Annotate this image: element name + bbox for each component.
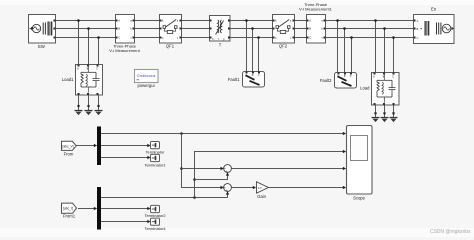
svg-text:EW: EW <box>38 44 45 49</box>
load block Load1 <box>62 65 103 96</box>
svg-text:C: C <box>417 36 419 40</box>
svg-text:powergui: powergui <box>138 83 155 88</box>
wire drop phase B to Load <box>383 27 386 72</box>
three-phase V-I measurement1 block <box>299 2 332 43</box>
gain block Gain <box>257 182 269 199</box>
sum block Sum2 <box>224 184 232 193</box>
svg-text:From1: From1 <box>63 214 76 219</box>
wire phase B: V-I Measurement to QF1 <box>135 28 160 30</box>
wire From1 to Demux2 <box>78 207 97 210</box>
svg-text:B: B <box>118 27 120 31</box>
svg-text:Terminator: Terminator <box>146 150 166 155</box>
wire Sum1 to Scope in3 <box>231 167 346 170</box>
wire Demux2 out1 (Ia) to Sum2 bottom <box>101 191 229 197</box>
demux Demux2 <box>97 187 101 230</box>
svg-text:B: B <box>309 27 311 31</box>
svg-text:V-I Measurement: V-I Measurement <box>109 48 140 53</box>
source Eo <box>414 7 455 44</box>
ground under Load1 phase A <box>75 95 83 115</box>
ground under Load phase A <box>372 105 380 122</box>
wire phase C: QF1 to transformer T <box>182 37 210 39</box>
svg-text:C: C <box>118 36 120 40</box>
terminator Terminator2 <box>144 205 166 218</box>
svg-text:Terminator4: Terminator4 <box>144 226 166 231</box>
terminator Terminator4 <box>144 218 166 231</box>
terminator Terminator1 <box>144 154 166 167</box>
junction Ia tap <box>193 196 196 199</box>
svg-text:V-I Measurement1: V-I Measurement1 <box>299 7 332 12</box>
junction Va to Sum1 <box>180 167 183 170</box>
wire Va branch to Sum1 left <box>182 167 224 170</box>
svg-text:Terminator2: Terminator2 <box>144 213 166 218</box>
watermark CSDN <box>430 229 471 235</box>
svg-text:B: B <box>417 27 419 31</box>
svg-text:Load1: Load1 <box>62 77 74 82</box>
wire phase B: QF1 to transformer T <box>182 28 210 30</box>
sum block Sum1 <box>224 165 232 174</box>
wire phase B: QF2 to V-I Measurement1 <box>295 28 307 30</box>
svg-text:T: T <box>219 43 222 48</box>
svg-text:A: A <box>417 19 419 23</box>
breaker QF1 <box>160 15 182 49</box>
svg-text:A: A <box>275 19 277 23</box>
wire drop phase A to Load1 <box>77 19 80 64</box>
svg-text:C: C <box>392 74 394 78</box>
svg-text:QF1: QF1 <box>166 44 175 49</box>
svg-text:CSDN @mgksnbx: CSDN @mgksnbx <box>430 229 471 235</box>
wire drop phase C to Fault2 <box>350 36 353 72</box>
wire From to Demux1 <box>76 144 97 147</box>
wire phase A: transformer T to QF2 <box>231 20 273 22</box>
wire drop phase C to Fault1 <box>257 36 260 71</box>
wire Gain to Scope in4 <box>269 186 347 189</box>
svg-text:Terminator1: Terminator1 <box>144 162 166 167</box>
ground under Load1 phase B <box>85 95 93 115</box>
svg-text:1.5: 1.5 <box>258 186 262 190</box>
svg-text:A: A <box>118 19 120 23</box>
demux Demux1 <box>97 127 101 166</box>
svg-text:C: C <box>162 36 164 40</box>
from tag [abc_I] <box>62 203 77 219</box>
terminator Terminator <box>146 142 166 155</box>
ground under Load phase C <box>390 105 398 122</box>
wire drop phase B to Fault1 <box>251 27 254 71</box>
svg-text:From: From <box>64 151 74 156</box>
fault block Fault2 <box>320 73 357 89</box>
svg-text:Fault2: Fault2 <box>320 78 332 83</box>
wire drop phase A to Load <box>374 19 377 72</box>
svg-text:Continuous: Continuous <box>137 74 156 78</box>
wire drop phase B to Load1 <box>87 27 90 64</box>
wire phase B: EW to V-I Measurement <box>56 28 116 30</box>
wire Ia vertical tap to Scope in2 <box>195 150 347 198</box>
wire drop phase C to Load <box>392 36 395 72</box>
load block Load <box>360 73 399 106</box>
wire Va vertical tap to Sum2 left <box>182 134 224 190</box>
svg-text:Eo: Eo <box>431 7 437 12</box>
svg-text:C: C <box>258 74 260 77</box>
wire phase B: V-I Measurement1 to Eo <box>326 28 414 30</box>
wire phase A: QF1 to transformer T <box>182 20 210 22</box>
from tag [abc_V] <box>62 141 77 156</box>
svg-text:A: A <box>77 66 79 70</box>
ground under Load phase B <box>381 105 389 122</box>
wire phase C: EW to V-I Measurement <box>56 37 116 39</box>
breaker QF2 <box>273 15 295 49</box>
junction Ia to Sum1 <box>193 178 196 181</box>
wire phase C: V-I Measurement1 to Eo <box>326 37 414 39</box>
svg-text:C: C <box>212 38 214 41</box>
wire Ia branch to Sum1 bottom <box>195 172 230 179</box>
wire drop phase A to Fault2 <box>336 19 339 72</box>
svg-text:Load: Load <box>360 86 370 91</box>
wire drop phase B to Fault2 <box>343 27 346 72</box>
wire Demux2 out3 to Terminator4 <box>101 220 151 223</box>
svg-text:A: A <box>162 19 164 23</box>
powergui block <box>135 70 159 89</box>
svg-text:C: C <box>275 36 277 40</box>
svg-text:QF2: QF2 <box>279 44 288 49</box>
transformer T <box>210 16 231 48</box>
wire drop phase A to Fault1 <box>245 19 248 71</box>
fault block Fault1 <box>228 72 265 88</box>
three-phase V-I measurement block <box>109 15 140 54</box>
ground under Load1 phase C <box>95 95 103 115</box>
svg-text:Fault1: Fault1 <box>228 77 240 82</box>
wire phase A: V-I Measurement1 to Eo <box>326 20 414 22</box>
svg-text:[abc_I]: [abc_I] <box>63 207 73 211</box>
scope block <box>347 126 373 201</box>
wire phase A: QF2 to V-I Measurement1 <box>295 20 307 22</box>
wire phase C: V-I Measurement to QF1 <box>135 37 160 39</box>
wire Demux1 out3 to Terminator1 <box>101 156 151 159</box>
svg-text:A: A <box>373 74 375 78</box>
svg-text:[abc_V]: [abc_V] <box>62 144 73 148</box>
svg-text:+: + <box>226 189 228 193</box>
wire phase B: transformer T to QF2 <box>231 28 273 30</box>
svg-text:A: A <box>309 19 311 23</box>
wire phase C: QF2 to V-I Measurement1 <box>295 37 307 39</box>
svg-text:C: C <box>350 75 352 78</box>
svg-text:C: C <box>309 36 311 40</box>
wire phase A: V-I Measurement to QF1 <box>135 20 160 22</box>
wire phase A: EW to V-I Measurement <box>56 20 116 22</box>
wire Demux1 out1 (Va) to Scope in1 <box>101 132 346 135</box>
junction Va tap <box>180 132 183 135</box>
wire phase C: transformer T to QF2 <box>231 37 273 39</box>
wire Demux1 out2 to Terminator <box>101 144 151 147</box>
wire drop phase C to Load1 <box>97 36 100 64</box>
svg-text:Gain: Gain <box>257 194 267 199</box>
svg-text:Scope: Scope <box>353 196 366 201</box>
svg-text:C: C <box>96 66 98 70</box>
svg-text:+: + <box>226 170 228 174</box>
source EW <box>29 15 56 50</box>
wire Demux2 out2 to Terminator2 <box>101 207 151 210</box>
wire Sum2 to Gain <box>231 186 256 189</box>
